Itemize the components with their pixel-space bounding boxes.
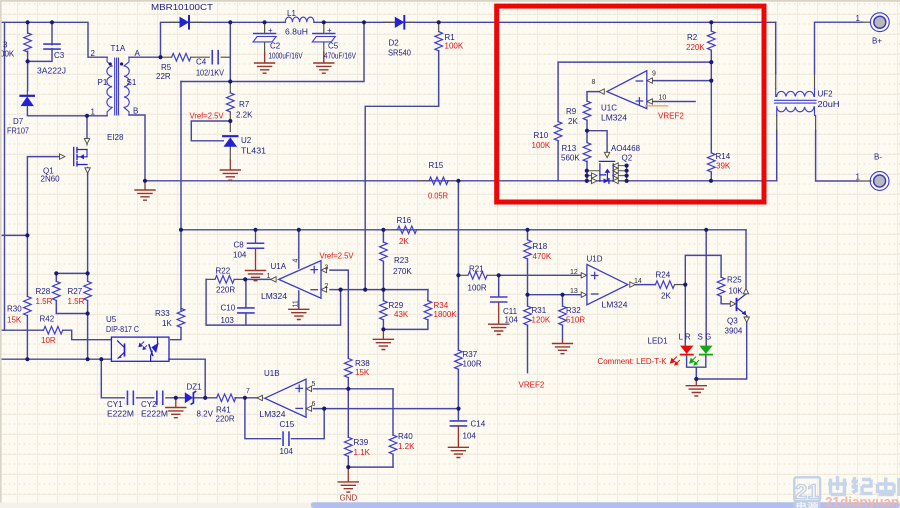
page border top [0, 0, 900, 2]
wire R2 bottom node y62.1 [558, 50, 711, 121]
junction (87.6,273.4) [86, 271, 90, 275]
svg-text:R10: R10 [534, 131, 549, 140]
svg-text:100K: 100K [445, 42, 464, 51]
junction (626.6,175.6) [625, 174, 629, 178]
capacitor C14 [450, 421, 466, 426]
svg-text:R25: R25 [727, 276, 742, 285]
wire D7 bottom to pin1 [27, 109, 87, 116]
svg-text:1800K: 1800K [434, 310, 458, 319]
wire dark lead R16 [392, 229, 421, 231]
svg-text:510R: 510R [566, 316, 585, 325]
wire R27 R28 bottom [56, 301, 87, 360]
svg-text:R24: R24 [656, 271, 671, 280]
ground C2 [264, 52, 266, 63]
ground R29 [382, 329, 384, 338]
junction (365.2,289.6) [363, 288, 367, 292]
wire B+ down to UF2 [775, 22, 777, 73]
wire R18 [527, 230, 529, 295]
svg-text:A: A [135, 49, 141, 58]
junction (230.3,121) [228, 119, 232, 123]
wire U1A pin4 [298, 230, 300, 268]
resistor R40 [389, 435, 397, 454]
ground LED [695, 379, 697, 385]
wire TL431 ref loop [191, 121, 230, 141]
pin arrow Q1 source [85, 168, 90, 173]
svg-text:104: 104 [280, 447, 294, 456]
resistor R2 [708, 31, 716, 50]
wire R32 [562, 295, 564, 341]
pin arrow U1D in12 [581, 273, 586, 278]
svg-text:1.5R: 1.5R [68, 297, 85, 306]
ground GND symbol [347, 467, 349, 481]
svg-text:10R: 10R [41, 336, 56, 345]
svg-text:E222M: E222M [141, 410, 168, 419]
diode MBR10100CT [180, 16, 190, 29]
transistor Q1 2N60 [74, 148, 87, 167]
wire opto rail y359.2 [0, 358, 111, 360]
svg-text:2: 2 [91, 49, 96, 58]
svg-text:22R: 22R [156, 72, 171, 81]
wire U1A output node [245, 278, 270, 280]
svg-text:00K: 00K [0, 50, 15, 59]
junction (160.5,57.2) [158, 55, 162, 59]
wire R40 [392, 389, 394, 467]
pin arrow Q1 drain [84, 139, 89, 144]
ground U2 [229, 160, 231, 169]
page border left [0, 0, 2, 503]
junction (56.3,273.4) [54, 271, 58, 275]
op-amp U1C [607, 71, 647, 109]
svg-text:220R: 220R [216, 415, 235, 424]
capacitor CY1 [127, 391, 133, 404]
LED red half [671, 346, 694, 365]
svg-text:P1: P1 [98, 78, 108, 87]
wire pin3 to R38 [330, 270, 348, 358]
svg-text:GND: GND [340, 494, 358, 503]
diode D2 [395, 16, 405, 29]
wire C4 vertical x230 [229, 22, 231, 81]
junction (264.6,22.3) [263, 20, 267, 24]
wire U1A pin11 [298, 291, 300, 308]
svg-text:0.05R: 0.05R [428, 192, 448, 201]
wire C11 [498, 275, 500, 296]
svg-text:1: 1 [856, 14, 861, 23]
wire R33 net [171, 328, 181, 340]
diode D7 [21, 96, 34, 106]
svg-text:R22: R22 [216, 267, 231, 276]
svg-text:20uH: 20uH [818, 100, 840, 109]
svg-text:Q2: Q2 [622, 154, 633, 163]
resistor R18 [524, 240, 532, 259]
svg-text:EI28: EI28 [107, 133, 124, 142]
svg-text:L1: L1 [287, 9, 296, 18]
svg-text:C4: C4 [196, 58, 207, 67]
junction (145,180.8) [143, 179, 147, 183]
junction (27.6,22.3) [26, 20, 30, 24]
wire R9 R13 gate [587, 120, 607, 181]
junction (696.3,379) [694, 377, 698, 381]
svg-text:D7: D7 [13, 117, 24, 126]
ground U1A pin11 [298, 307, 300, 310]
svg-text:43K: 43K [394, 310, 409, 319]
svg-text:R29: R29 [389, 301, 404, 310]
wire R31 VREF2 [527, 295, 529, 373]
svg-text:DZ1: DZ1 [187, 383, 203, 392]
junction (458.4,180.8) [456, 179, 460, 183]
svg-text:220R: 220R [216, 286, 235, 295]
wire R21 pin12 [499, 274, 581, 276]
svg-text:103: 103 [221, 316, 235, 325]
wire dark lead TL431 [229, 121, 231, 160]
op-amp U1D [587, 264, 628, 304]
svg-text:11: 11 [293, 300, 300, 307]
junction (324.2,408.6) [322, 407, 326, 411]
zener diode DZ1 [185, 392, 196, 405]
pin arrow Q3 emitter [744, 317, 749, 322]
svg-text:R41: R41 [216, 406, 231, 415]
svg-text:1.5R: 1.5R [36, 297, 53, 306]
svg-text:T1A: T1A [111, 44, 126, 53]
junction (230.3,22.3) [228, 20, 232, 24]
svg-text:220K: 220K [686, 43, 705, 52]
svg-text:12: 12 [570, 269, 578, 276]
wire R14 bottom [710, 172, 712, 181]
wire B pin to ground [129, 115, 145, 181]
junction (706.2,229.8) [704, 228, 708, 232]
ground C14 [457, 426, 459, 446]
svg-text:100K: 100K [532, 141, 551, 150]
junction (245.2,279.4) [243, 277, 247, 281]
svg-text:6: 6 [312, 401, 316, 408]
resistor R13 [583, 143, 591, 162]
wire left edge vertical [4, 22, 6, 330]
capacitor C10 [238, 308, 254, 313]
svg-text:1K: 1K [162, 319, 172, 328]
svg-text:C3: C3 [54, 51, 65, 60]
wire dark lead R5 [161, 56, 210, 58]
watermark chinese glyphs [828, 476, 899, 496]
wire W1 y81.5 [181, 22, 364, 81]
watermark logo 21 [794, 477, 821, 508]
svg-text:LM324: LM324 [260, 410, 287, 419]
svg-text:10: 10 [659, 95, 667, 102]
svg-text:R14: R14 [716, 152, 731, 161]
wire CY net [101, 359, 262, 398]
svg-text:MBR10100CT: MBR10100CT [151, 3, 213, 12]
junction (562.5,294.7) [560, 293, 564, 297]
wire R25 bottom to Q3 base [721, 296, 729, 303]
transformer UF2 top winding [776, 89, 815, 97]
wire R30 bottom [26, 316, 28, 360]
wire R24 node [685, 255, 721, 345]
wire dark lead R15 [419, 180, 454, 182]
resistor R38 [345, 358, 353, 377]
svg-text:14: 14 [634, 278, 642, 285]
Q2 drain pins right [619, 166, 627, 181]
svg-text:2: 2 [325, 283, 329, 290]
wire green LED drop [705, 230, 707, 346]
wire dark lead Q1 [86, 140, 89, 174]
wire pin9 node vertical [710, 62, 712, 153]
svg-text:R32: R32 [566, 306, 581, 315]
svg-text:SR540: SR540 [388, 49, 412, 58]
svg-text:R13: R13 [562, 144, 577, 153]
terminal B- [870, 172, 889, 191]
wire pin13 net [528, 294, 581, 296]
svg-text:1: 1 [267, 273, 271, 280]
wire Q1 gate net [0, 157, 59, 297]
svg-text:102/1KV: 102/1KV [196, 69, 225, 78]
junction (323.8,22.3) [322, 20, 326, 24]
svg-text:Comment: LED-T-K: Comment: LED-T-K [598, 357, 668, 366]
svg-text:7: 7 [246, 388, 250, 395]
pin arrow U1C out8 [599, 89, 604, 94]
wire R2 top [710, 22, 712, 31]
svg-text:B: B [133, 107, 138, 116]
junction (181,229.8) [179, 228, 183, 232]
resistor R30 [24, 296, 32, 315]
svg-text:1: 1 [91, 108, 96, 117]
wire U1C pin9 [651, 80, 711, 82]
net label marker VREF2 underline [646, 105, 668, 107]
junction (711,180.8) [709, 179, 713, 183]
wire R27 R28 top [56, 273, 87, 281]
svg-text:R39: R39 [354, 438, 369, 447]
pin arrow Q3 base [730, 301, 735, 306]
resistor R14 [708, 153, 716, 172]
svg-text:5: 5 [312, 381, 316, 388]
pin arrow U1C in9 [647, 78, 652, 83]
svg-text:21: 21 [795, 481, 819, 504]
svg-text:104: 104 [463, 432, 477, 441]
svg-text:R28: R28 [36, 287, 51, 296]
TL431 U2 [223, 136, 237, 147]
junction (383.4,329.4) [381, 327, 385, 331]
junction (711.3,22.3) [709, 20, 713, 24]
svg-text:Vref=2.5V: Vref=2.5V [190, 112, 225, 121]
svg-text:R30: R30 [7, 305, 22, 314]
resistor R42 [44, 326, 63, 334]
svg-text:1: 1 [856, 173, 861, 182]
resistor R37 [455, 350, 463, 369]
ground B pin [144, 181, 146, 189]
svg-text:9: 9 [652, 71, 656, 78]
svg-text:3: 3 [325, 265, 329, 272]
wire dark lead UF2 pins [776, 74, 871, 182]
capacitor C15 [283, 432, 289, 445]
transformer T1A primary P1 [107, 57, 112, 115]
capacitor C3 [44, 44, 60, 49]
svg-text:U1D: U1D [587, 255, 603, 264]
wire dark lead R1 [438, 22, 440, 31]
wire UF2 B+ side [815, 22, 863, 73]
pin arrow U1A out [271, 277, 276, 282]
svg-text:R23: R23 [394, 256, 409, 265]
capacitor C4 [212, 51, 218, 64]
svg-text:R31: R31 [532, 306, 547, 315]
resistor R27 [84, 281, 92, 300]
resistor R24 [655, 281, 674, 289]
svg-text:R15: R15 [429, 161, 444, 170]
svg-text:6.8uH: 6.8uH [285, 28, 308, 37]
wire R38 bottom to pin5 [347, 378, 349, 389]
wire R10 bottom [557, 141, 559, 181]
capacitor C5 [312, 34, 335, 42]
junction (205.2,397.8) [203, 396, 207, 400]
pin arrow Q2 gate [604, 152, 609, 157]
wire Q1 source down [87, 173, 89, 274]
junction (383.4,289.6) [381, 288, 385, 292]
svg-text:R27: R27 [68, 287, 83, 296]
resistor R1 [435, 32, 443, 51]
junction (438.7,22.3) [437, 20, 441, 24]
wire UF2 B- side [777, 131, 858, 182]
svg-text:LM324: LM324 [602, 301, 629, 310]
junction (626.6,170.7) [625, 169, 629, 173]
svg-text:2K: 2K [568, 117, 578, 126]
svg-text:3A222J: 3A222J [37, 67, 66, 76]
junction (458.5,408.6) [456, 407, 460, 411]
svg-text:VREF2: VREF2 [658, 112, 684, 121]
junction (87,115.8) [85, 114, 89, 118]
wire dark lead R7 [229, 82, 231, 122]
svg-text:D2: D2 [389, 39, 400, 48]
svg-text:8: 8 [592, 79, 596, 86]
svg-text:R7: R7 [239, 100, 250, 109]
svg-text:LM324: LM324 [601, 114, 628, 123]
svg-text:4: 4 [293, 259, 300, 263]
pin arrow U1C in10 [647, 99, 652, 104]
svg-text:3: 3 [3, 41, 8, 50]
junction (527.5,294.7) [525, 293, 529, 297]
junction (175.8,397.8) [174, 396, 178, 400]
capacitor C11 [491, 297, 507, 302]
wire dark lead D7 [26, 91, 28, 109]
resistor R25 [717, 277, 725, 296]
resistor R15 [429, 177, 448, 185]
ground C11 [498, 303, 500, 324]
resistor R5 [172, 53, 191, 61]
wire U1C pin8 to R9 [587, 92, 599, 101]
wire dark lead R9 R13 [586, 97, 588, 142]
svg-text:UF2: UF2 [818, 90, 834, 99]
svg-text:13: 13 [570, 288, 578, 295]
junction (230.3,81.5) [228, 79, 232, 83]
pin arrow U1B in6 [306, 406, 311, 411]
junction (87.6,359.2) [86, 357, 90, 361]
scrollbar track [0, 503, 900, 508]
svg-text:C15: C15 [280, 420, 295, 429]
transistor Q2 AO4468 [599, 161, 614, 183]
svg-text:R33: R33 [155, 309, 170, 318]
junction (711.3,62.1) [709, 60, 713, 64]
svg-text:R40: R40 [398, 432, 413, 441]
svg-text:104: 104 [505, 316, 519, 325]
wire C15 feedback [245, 398, 324, 439]
Q2 source pins left [587, 171, 600, 181]
wire U1B pin5 [314, 388, 394, 390]
junction (27.6,61.4) [26, 59, 30, 63]
wire R39 [347, 389, 349, 467]
resistor R16 [397, 226, 416, 234]
ground C8 [255, 248, 257, 269]
transformer UF2 core [775, 100, 817, 103]
wire R3/C3 bottom link [28, 22, 52, 90]
wire dark lead MBR diode [170, 21, 202, 23]
svg-text:R16: R16 [397, 216, 412, 225]
transformer UF2 bottom winding [777, 107, 815, 116]
pin arrow U1B out [257, 395, 262, 400]
junction (340.6,289.6) [339, 288, 343, 292]
svg-text:10K: 10K [729, 287, 744, 296]
svg-text:2.2K: 2.2K [236, 111, 253, 120]
wire rail y180.8 secondary return [145, 180, 777, 182]
wire LED cathodes [687, 316, 747, 379]
wire R29 R34 [383, 290, 428, 330]
svg-text:1000uF/16V: 1000uF/16V [269, 52, 304, 61]
resistor R10 [554, 122, 562, 141]
transistor Q3 3904 [737, 288, 747, 317]
wire top-left rail [0, 22, 107, 57]
junction (626.6,180.9) [625, 179, 629, 183]
transformer T1A core [115, 58, 119, 115]
wire x181 long vertical [180, 82, 182, 311]
junction (87.6,313.5) [86, 311, 90, 315]
wire R39 R40 bottom [348, 466, 393, 468]
resistor R33 [177, 308, 185, 327]
transformer T1A secondary S1 [124, 57, 129, 115]
wire U1D pin14 [636, 284, 656, 286]
svg-text:TL431: TL431 [241, 147, 267, 156]
wire U1B pin6 [314, 408, 459, 410]
svg-text:LM324: LM324 [261, 292, 288, 301]
svg-text:39K: 39K [716, 162, 731, 171]
svg-text:21dianyuan.c: 21dianyuan.c [825, 495, 900, 508]
resistor R39 [345, 437, 353, 456]
junction (498.7,275.3) [497, 273, 501, 277]
resistor R21 [468, 272, 487, 280]
junction (586.8,170.7) [585, 169, 589, 173]
svg-text:Vref=2.5V: Vref=2.5V [320, 252, 355, 261]
pin arrow U1D out14 [630, 282, 635, 287]
pin arrow U1D in13 [581, 292, 586, 297]
svg-text:LED1: LED1 [648, 337, 669, 346]
wire transformer pin1 to Q1 drain [87, 116, 107, 140]
resistor R3 [24, 33, 32, 52]
svg-text:15K: 15K [355, 368, 370, 377]
wire R22 C10 feedback [206, 279, 341, 325]
svg-text:470uF/16V: 470uF/16V [324, 52, 357, 61]
op-amp U1B [265, 379, 306, 417]
capacitor C2 [253, 34, 276, 42]
pin arrow Q1 gate [60, 154, 65, 159]
svg-text:U1B: U1B [264, 369, 280, 378]
svg-text:8.2V: 8.2V [197, 410, 214, 419]
scrollbar thumb [311, 502, 900, 508]
wire rail y229.8 [181, 229, 746, 231]
LED green half [690, 346, 713, 365]
pin arrow U1A in2 [321, 287, 326, 292]
wire Q3 collector [745, 230, 747, 288]
junction (101.3,359.2) [99, 357, 103, 361]
svg-text:U5: U5 [106, 315, 117, 324]
junction (586.8,180.9) [585, 179, 589, 183]
svg-text:AO4468: AO4468 [611, 144, 641, 153]
resistor R29 [380, 301, 388, 320]
svg-text:C10: C10 [221, 304, 236, 313]
junction (711.3,80.6) [709, 79, 713, 83]
ground C5 [323, 52, 325, 63]
